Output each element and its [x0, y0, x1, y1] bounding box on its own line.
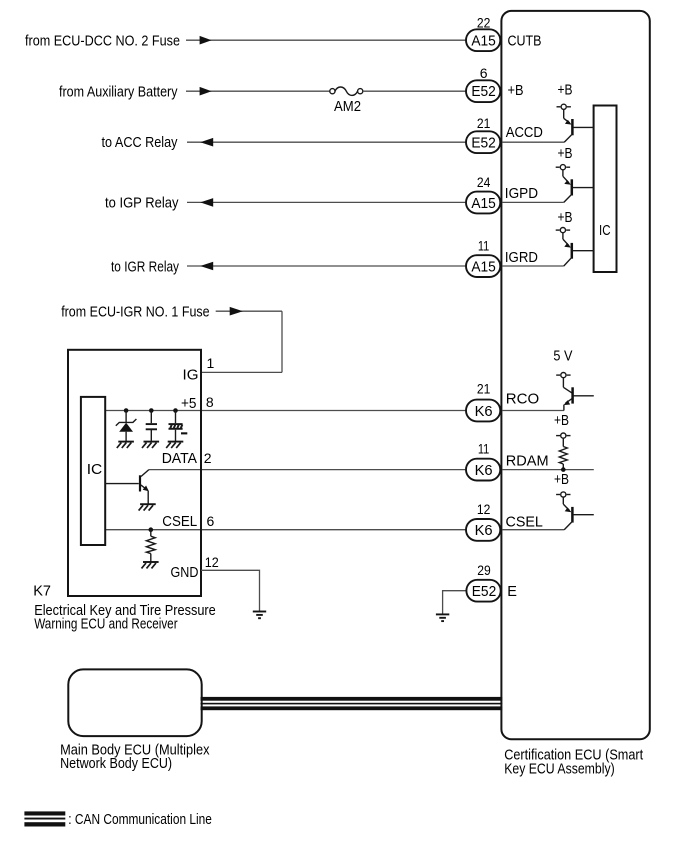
svg-text:21: 21: [477, 380, 491, 396]
svg-text:IC: IC: [599, 223, 611, 239]
svg-text:IGPD: IGPD: [505, 186, 538, 202]
svg-text:ACCD: ACCD: [506, 125, 543, 141]
svg-text:6: 6: [480, 65, 488, 81]
ground capacitor C1: [144, 441, 160, 443]
svg-text:24: 24: [477, 174, 491, 190]
arrow right CUTB: [200, 36, 212, 45]
svg-text:E52: E52: [472, 584, 497, 600]
transistor Q1 bar: [139, 475, 141, 491]
ground resistor R1: [143, 561, 159, 563]
connector oval E52 pin 29: [466, 580, 500, 602]
svg-text:+B: +B: [558, 146, 573, 162]
svg-text:IC: IC: [87, 462, 103, 478]
IC U2 box: [594, 106, 617, 273]
connector oval E52 pin 21: [466, 131, 500, 153]
wire ACCD row: [187, 141, 470, 143]
svg-text:to IGP Relay: to IGP Relay: [105, 196, 179, 212]
transistor Q1 collector: [141, 470, 149, 477]
connector oval E52 pin 6: [466, 80, 500, 102]
ECU Main Body box: [68, 669, 201, 736]
svg-text:12: 12: [205, 554, 219, 570]
node E junction dot RDAM: [561, 467, 566, 472]
svg-text:+5: +5: [181, 396, 197, 412]
transistor Q5 RCO: [562, 378, 564, 388]
node A junction dot zener tap: [124, 408, 129, 413]
ground zener: [118, 441, 134, 443]
wire +B row right segment: [363, 90, 470, 92]
wire DATA pin 2 row: [149, 469, 470, 471]
connector oval K6 pin 12: [466, 519, 500, 541]
wire CUTB row: [186, 39, 470, 41]
wire CAN bus thick line: [201, 697, 503, 701]
arrow left ACCD: [200, 138, 213, 147]
node D junction dot resistor tap: [149, 527, 154, 532]
capacitor C1: [150, 411, 152, 424]
transistor Q6 CSEL: [562, 497, 564, 504]
svg-text:RDAM: RDAM: [506, 453, 549, 469]
svg-text:CSEL: CSEL: [162, 514, 197, 530]
svg-text:K6: K6: [475, 463, 493, 479]
svg-text:8: 8: [206, 394, 214, 410]
node B junction dot capacitor tap: [149, 408, 154, 413]
wire IGRD inside: [502, 265, 564, 267]
svg-text:6: 6: [207, 513, 215, 529]
wire IG pin 1: [201, 371, 282, 373]
svg-text:29: 29: [477, 562, 491, 578]
wire IGPD row: [187, 201, 470, 203]
svg-text:to ACC Relay: to ACC Relay: [102, 135, 179, 151]
ECU K7 box: [68, 350, 201, 596]
svg-text:12: 12: [477, 501, 491, 517]
transistor Q4 IGRD: [562, 233, 564, 239]
svg-text:: CAN Communication Line: : CAN Communication Line: [68, 812, 212, 828]
svg-text:to IGR Relay: to IGR Relay: [111, 259, 180, 275]
transistor Q2 ACCD: [563, 109, 565, 118]
wire CSEL inside: [502, 529, 564, 531]
legend CAN symbol: [24, 811, 65, 815]
svg-text:Warning ECU and Receiver: Warning ECU and Receiver: [34, 616, 178, 632]
arrow right IG feed: [230, 307, 243, 316]
IC U1 box inside K7: [81, 397, 105, 545]
svg-text:IGRD: IGRD: [505, 250, 538, 266]
svg-text:K6: K6: [475, 404, 493, 420]
wire E pin 29: [443, 591, 467, 614]
zener diode D1: [125, 411, 127, 423]
svg-text:CUTB: CUTB: [508, 33, 542, 49]
svg-text:22: 22: [477, 14, 491, 30]
svg-text:E: E: [507, 584, 517, 600]
svg-text:21: 21: [477, 115, 491, 131]
svg-text:GND: GND: [171, 565, 199, 581]
ground E earth: [436, 613, 449, 615]
svg-text:CSEL: CSEL: [506, 514, 543, 530]
transistor Q1 base wire: [105, 483, 139, 485]
svg-text:DATA: DATA: [162, 451, 198, 467]
connector oval A15 pin 11: [466, 255, 500, 277]
resistor R2 RDAM pull-up: [562, 438, 564, 446]
svg-text:+B: +B: [554, 413, 569, 429]
svg-text:A15: A15: [471, 34, 496, 50]
svg-text:K6: K6: [475, 523, 493, 539]
wire GND pin 12: [201, 570, 260, 611]
wire +B row left segment: [186, 90, 330, 92]
wire +5 pin 8 row: [105, 410, 470, 412]
resistor R1: [150, 530, 152, 537]
ground GND earth: [253, 611, 266, 613]
wire IG fuse feed: [216, 310, 282, 312]
node C junction dot electrolytic tap: [173, 408, 178, 413]
arrow left IGPD: [200, 198, 213, 207]
transistor Q3 IGPD: [562, 170, 564, 177]
svg-text:+B: +B: [554, 472, 569, 488]
svg-text:from Auxiliary Battery: from Auxiliary Battery: [59, 84, 178, 100]
svg-text:11: 11: [478, 441, 490, 457]
svg-text:11: 11: [478, 238, 490, 254]
arrow left IGRD: [200, 262, 213, 271]
ground transistor Q1: [140, 503, 156, 505]
svg-text:+B: +B: [558, 82, 573, 98]
transistor Q1 emitter with arrow: [141, 485, 148, 491]
svg-text:from ECU-DCC NO. 2 Fuse: from ECU-DCC NO. 2 Fuse: [25, 33, 180, 49]
svg-text:IG: IG: [183, 368, 199, 384]
connector oval A15 pin 22: [466, 29, 500, 51]
wire ACCD inside: [502, 141, 564, 143]
svg-text:5 V: 5 V: [553, 349, 572, 365]
svg-text:K7: K7: [33, 583, 51, 599]
svg-text:A15: A15: [471, 260, 496, 276]
svg-text:RCO: RCO: [506, 391, 539, 407]
svg-text:1: 1: [207, 355, 215, 371]
svg-text:AM2: AM2: [334, 99, 361, 115]
svg-text:2: 2: [204, 450, 212, 466]
connector oval K6 pin 11: [466, 459, 500, 481]
svg-text:from ECU-IGR NO. 1 Fuse: from ECU-IGR NO. 1 Fuse: [61, 304, 209, 320]
svg-text:+B: +B: [558, 210, 573, 226]
fuse AM2: [330, 89, 335, 94]
svg-text:Key ECU Assembly): Key ECU Assembly): [504, 762, 615, 778]
connector oval K6 pin 21: [466, 400, 500, 422]
wire IG vertical drop: [281, 311, 283, 372]
svg-text:Network Body ECU): Network Body ECU): [60, 756, 172, 772]
capacitor C2 electrolytic: [175, 411, 177, 424]
wire RDAM inside: [502, 469, 594, 471]
arrow right +B: [200, 87, 212, 96]
wire CSEL pin 6 row: [105, 529, 470, 531]
svg-text:+B: +B: [508, 83, 524, 99]
ground capacitor C2: [168, 441, 184, 443]
ECU Certification box: [501, 11, 649, 739]
svg-text:E52: E52: [471, 136, 496, 152]
connector oval A15 pin 24: [466, 192, 500, 214]
wire IGPD inside: [502, 201, 564, 203]
svg-text:E52: E52: [471, 84, 496, 100]
wire IGRD row: [187, 265, 470, 267]
wire RCO inside: [502, 410, 564, 412]
svg-text:A15: A15: [471, 196, 496, 212]
